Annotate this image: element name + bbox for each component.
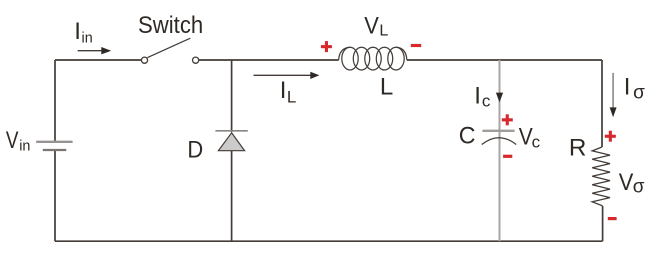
svg-text:L: L xyxy=(380,73,393,100)
svg-text:I: I xyxy=(74,18,81,45)
switch S xyxy=(141,38,198,63)
polarity plus (resistor top) xyxy=(605,131,616,142)
svg-text:c: c xyxy=(532,132,541,151)
svg-text:V: V xyxy=(364,12,379,39)
wire diode branch lower xyxy=(231,151,233,241)
wire right rail upper xyxy=(601,60,603,147)
wire capacitor branch xyxy=(499,60,501,241)
svg-text:D: D xyxy=(187,136,203,163)
polarity minus (inductor right) xyxy=(411,44,421,47)
wire inductor-to-right-corner segment xyxy=(407,59,602,61)
svg-text:C: C xyxy=(459,123,476,150)
svg-text:in: in xyxy=(82,29,93,46)
svg-text:I: I xyxy=(624,73,631,100)
svg-text:I: I xyxy=(474,83,481,110)
capacitor C xyxy=(482,131,517,145)
wire switch-to-inductor segment xyxy=(199,59,339,61)
svg-text:c: c xyxy=(482,91,491,110)
polarity plus (capacitor top) xyxy=(502,114,513,125)
svg-text:σ: σ xyxy=(633,176,645,197)
svg-text:I: I xyxy=(280,77,287,104)
current arrow IL xyxy=(254,72,320,79)
svg-text:R: R xyxy=(569,135,587,162)
wire left rail lower xyxy=(54,151,56,242)
wire top-left segment xyxy=(55,59,141,61)
svg-text:V: V xyxy=(619,169,634,196)
svg-text:L: L xyxy=(287,87,296,106)
current arrow Ic xyxy=(496,93,503,103)
wire bottom rail xyxy=(55,240,603,242)
current arrow Iin xyxy=(78,47,112,54)
current arrow Isigma xyxy=(610,73,617,117)
polarity minus (capacitor bottom) xyxy=(503,155,512,158)
resistor R xyxy=(592,147,610,206)
svg-text:Switch: Switch xyxy=(138,12,203,39)
svg-text:σ: σ xyxy=(633,82,645,103)
wire left rail upper xyxy=(54,60,56,141)
inductor L xyxy=(339,47,407,70)
svg-text:L: L xyxy=(379,23,388,40)
wire diode branch upper xyxy=(231,60,233,132)
svg-text:V: V xyxy=(519,123,533,150)
wire right rail lower xyxy=(602,206,604,241)
svg-text:in: in xyxy=(19,138,30,155)
polarity minus (resistor bottom) xyxy=(608,217,617,220)
svg-text:V: V xyxy=(6,127,19,154)
polarity plus (inductor left) xyxy=(321,41,332,52)
battery source Vin xyxy=(36,142,72,150)
diode D xyxy=(215,131,247,151)
